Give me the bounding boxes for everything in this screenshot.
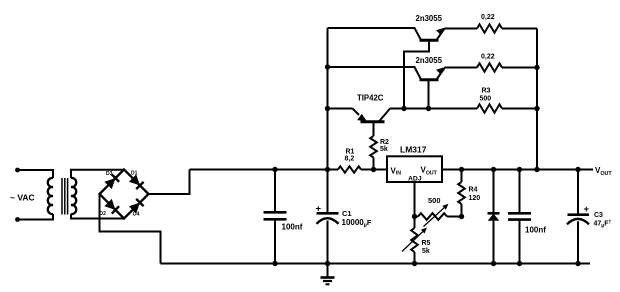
wire: output right rail	[536, 29, 538, 170]
wire: R7 to right rail	[502, 67, 537, 69]
junction: Q1 base node	[401, 106, 406, 111]
resistor R3 500	[477, 88, 502, 113]
svg-text:2n3055: 2n3055	[416, 14, 443, 23]
svg-text:120: 120	[469, 195, 481, 202]
svg-text:C1: C1	[342, 209, 352, 218]
resistor R7 0,22	[477, 54, 502, 72]
junction: 100nf bottom	[272, 261, 277, 266]
svg-text:+: +	[584, 204, 590, 215]
resistor R4 120	[458, 170, 480, 217]
capacitor C3 47uF	[567, 170, 611, 264]
wire: Q1 collector line	[328, 28, 422, 40]
wire: LM317 ADJ	[414, 182, 416, 217]
wire: R3 to right rail	[502, 108, 537, 110]
junction: R2 rail	[371, 167, 376, 172]
transistor Q1 2n3055	[416, 14, 445, 40]
wire: Q2 emitter to R7	[445, 67, 478, 69]
svg-text:LM317: LM317	[400, 145, 427, 155]
svg-text:C3: C3	[594, 212, 603, 219]
junction: R4 top rail	[459, 167, 464, 172]
capacitor 100nf (input)	[264, 170, 303, 264]
diode D5 (output protection)	[488, 170, 500, 264]
svg-text:D4: D4	[133, 212, 140, 218]
svg-text:TIP42C: TIP42C	[357, 94, 384, 103]
wire: secondary top to bridge AC top	[71, 170, 124, 178]
capacitor C1 10000uF	[316, 170, 372, 264]
junction: R5 bottom	[412, 261, 417, 266]
svg-text:0,22: 0,22	[481, 54, 495, 61]
junction: ADJ node	[412, 214, 417, 219]
junction: C3 top	[575, 167, 580, 172]
transformer T1 primary winding	[48, 178, 53, 214]
junction: Q2 base node	[426, 106, 431, 111]
junction: R4 bottom node	[459, 214, 464, 219]
wire: LM317 Vout to rail	[442, 169, 593, 171]
junction: C1 top	[325, 167, 330, 172]
svg-text:R1: R1	[346, 149, 355, 156]
wire: primary top lead	[18, 170, 54, 178]
wire: secondary bottom to bridge AC bottom	[71, 214, 124, 219]
wire: raw supply left rail	[327, 28, 329, 170]
junction: output 100nf bottom	[517, 261, 522, 266]
diode D2	[100, 199, 120, 217]
resistor R1 8,2	[338, 149, 361, 173]
svg-text:100nf: 100nf	[525, 226, 546, 235]
wire: bottom ground rail	[161, 263, 591, 265]
wire: Q1 emitter to R6	[445, 28, 478, 30]
svg-text:10000µF: 10000µF	[342, 218, 372, 229]
svg-text:R4: R4	[469, 187, 478, 194]
junction: left rail Q3	[325, 106, 330, 111]
junction: D5 bottom	[491, 261, 496, 266]
wire: Q3 base to R2	[373, 122, 375, 136]
wire: Q3 collector line	[390, 108, 477, 110]
bridge rectifier frame	[100, 170, 149, 219]
rheostat R5 5k	[402, 217, 431, 264]
svg-text:R3: R3	[482, 88, 491, 95]
svg-text:0,22: 0,22	[481, 14, 495, 21]
junction: C3 bottom	[575, 261, 580, 266]
wire: R2 to rail	[373, 158, 375, 170]
junction: right rail to output rail	[534, 167, 539, 172]
diode D3	[104, 171, 119, 189]
wire: primary bottom lead	[18, 214, 54, 220]
transformer T1 secondary winding	[71, 178, 76, 214]
rheostat 500	[415, 196, 462, 227]
wire: bridge negative to ground rail	[100, 194, 161, 264]
svg-text:~ VAC: ~ VAC	[10, 193, 35, 203]
resistor R2 5k	[370, 136, 389, 158]
capacitor 100nf (output)	[508, 170, 546, 264]
svg-text:500: 500	[480, 96, 492, 103]
label ~VAC	[10, 193, 35, 203]
transistor Q2 2n3055	[416, 56, 445, 80]
input terminal bottom	[15, 217, 20, 222]
wire: Q2 collector line	[328, 67, 422, 80]
junction: C1 bottom	[325, 261, 330, 266]
svg-text:2n3055: 2n3055	[416, 56, 443, 65]
wire: Q1 base	[404, 40, 429, 108]
junction: left rail Q2	[325, 64, 330, 69]
svg-text:5k: 5k	[380, 146, 388, 153]
diode D1	[129, 171, 144, 190]
junction: D5 top	[491, 167, 496, 172]
resistor R6 0,22	[477, 14, 502, 33]
op-amp U1 LM317 box	[387, 145, 442, 183]
diode D4	[129, 199, 144, 218]
svg-text:8,2: 8,2	[345, 156, 355, 163]
transistor Q3 TIP42C	[353, 94, 391, 122]
input terminal top	[15, 168, 20, 173]
svg-text:D3: D3	[106, 171, 113, 177]
junction: 100nf top	[272, 167, 277, 172]
svg-text:D1: D1	[131, 171, 138, 177]
wire: Q2 base	[428, 80, 430, 109]
svg-text:R2: R2	[380, 139, 389, 146]
label VOUT	[595, 166, 612, 177]
svg-text:+: +	[316, 204, 322, 215]
svg-text:5k: 5k	[422, 248, 430, 255]
wire: main positive rail	[190, 169, 388, 171]
svg-text:R5: R5	[422, 240, 431, 247]
svg-text:500: 500	[428, 196, 441, 205]
transformer T1 core	[62, 178, 68, 215]
wire: bridge positive to main rail	[149, 170, 190, 195]
junction: right rail R3	[534, 106, 539, 111]
svg-text:ADJ: ADJ	[408, 176, 422, 183]
junction: output 100nf top	[517, 167, 522, 172]
junction: right rail R7	[534, 65, 539, 70]
wire: Q3 emitter line	[328, 108, 353, 110]
svg-text:100nf: 100nf	[282, 223, 303, 232]
ground	[321, 264, 335, 285]
wire: R6 to right rail	[502, 28, 537, 30]
